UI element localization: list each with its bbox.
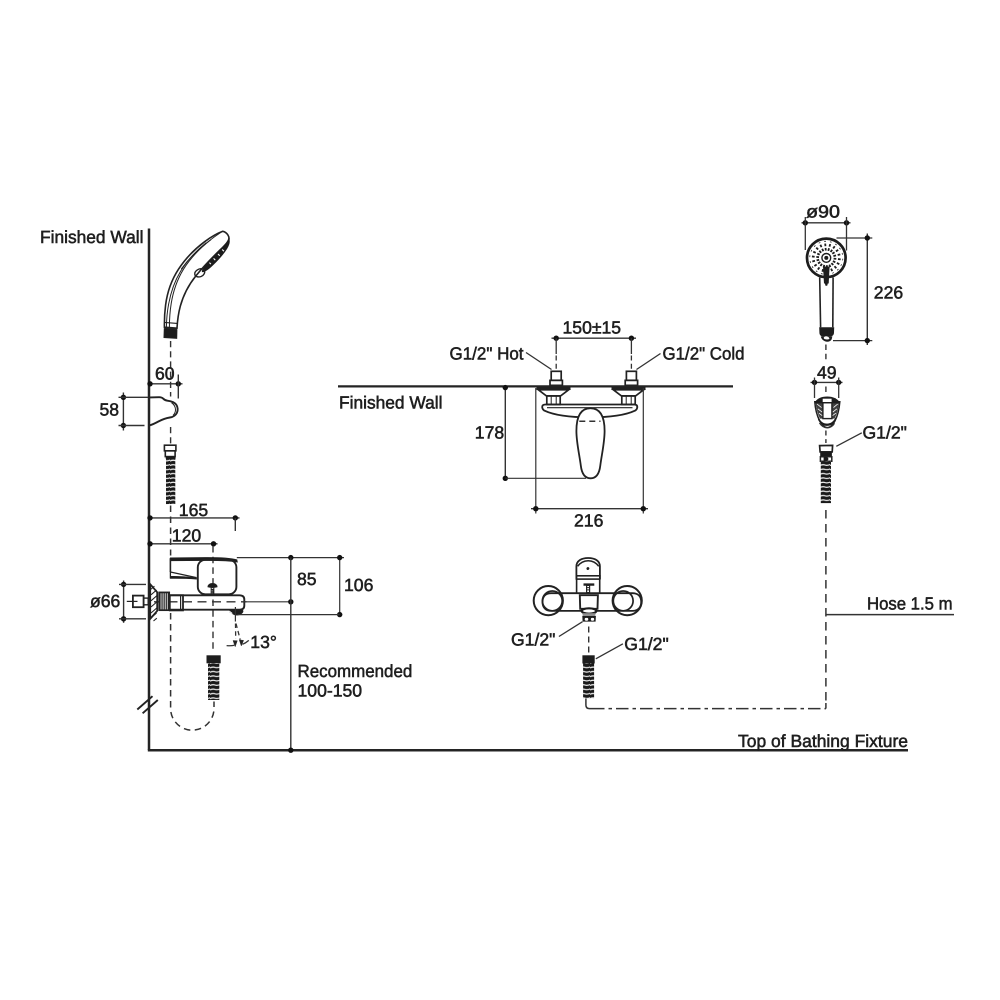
dimension 58 (bracket height) bbox=[100, 393, 149, 431]
mixer body (horizontal cylinder) bbox=[169, 595, 244, 609]
label Finished Wall (front view) bbox=[339, 393, 443, 413]
escutcheon hot (flange + nut) bbox=[537, 389, 571, 405]
cartridge screw (rear) bbox=[584, 584, 594, 593]
spout swing 13 degrees indicator bbox=[227, 607, 249, 647]
hand shower spray face (dark strip) bbox=[203, 240, 229, 271]
label Hose 1.5 m with reference line bbox=[826, 594, 954, 615]
outlet rings + castellated nut bbox=[582, 608, 597, 621]
lever underside wedge bbox=[170, 572, 196, 578]
wall supply bracket (cone cup) bbox=[815, 397, 841, 428]
svg-text:165: 165 bbox=[179, 500, 209, 520]
svg-text:G1/2": G1/2" bbox=[863, 423, 907, 443]
svg-text:ø90: ø90 bbox=[806, 201, 840, 221]
wall flange right (rear view) bbox=[613, 586, 642, 615]
svg-text:Recommended: Recommended bbox=[298, 661, 413, 681]
svg-text:G1/2" Hot: G1/2" Hot bbox=[450, 344, 524, 364]
hand shower hook hole bbox=[195, 269, 205, 277]
dark top rim cap bbox=[815, 397, 841, 404]
shower hose upper segment (coil) bbox=[166, 457, 176, 505]
supply valve cold (above wall) bbox=[625, 371, 637, 385]
hose nut (right) bbox=[820, 445, 833, 461]
outlet centerline (dashed) bbox=[588, 627, 590, 654]
dark side walls bbox=[816, 403, 823, 419]
bowl bottom arc bbox=[819, 423, 834, 428]
svg-text:Finished Wall: Finished Wall bbox=[40, 227, 144, 247]
dimension 106 (top of handle to spout bottom) bbox=[238, 555, 374, 617]
svg-text:58: 58 bbox=[100, 400, 120, 420]
supply valve hot (above wall) bbox=[550, 371, 562, 385]
svg-text:G1/2": G1/2" bbox=[511, 629, 555, 649]
label Top of Bathing Fixture bbox=[738, 731, 908, 751]
vertical reference line to bathing fixture bbox=[290, 558, 292, 750]
label G1/2" (hose nut) with leader bbox=[596, 634, 669, 659]
centerline through shower and holder (dashed) bbox=[170, 341, 172, 445]
spout tip (dark, angled down) bbox=[230, 610, 243, 615]
centerline below bracket (dashed) bbox=[825, 431, 827, 444]
wall break symbol bbox=[137, 696, 158, 713]
shower head face (circle with spray nozzles) bbox=[807, 239, 846, 286]
dimension 85 (top of handle to body axis) bbox=[237, 555, 344, 605]
handle collar and inlet tip (dark) bbox=[819, 327, 834, 341]
inner slot (white) bbox=[823, 403, 832, 419]
label G1/2" (hose to handshower) with leader bbox=[836, 423, 907, 447]
label G1/2" Hot with leader bbox=[450, 344, 552, 370]
bath mixer side view: body bbox=[169, 557, 244, 615]
svg-text:106: 106 bbox=[344, 575, 374, 595]
mixer handle (front, teardrop) bbox=[576, 408, 604, 478]
dimension 165 (wall to spout tip) bbox=[147, 500, 239, 531]
mixer body bar (front) bbox=[542, 405, 637, 418]
svg-text:G1/2": G1/2" bbox=[624, 634, 668, 654]
shower hose (right, coil) bbox=[821, 461, 831, 503]
shower holder bracket on wall bbox=[150, 397, 178, 425]
set screw on body bbox=[208, 583, 217, 587]
svg-text:85: 85 bbox=[297, 569, 317, 589]
wall flange left (rear view) bbox=[534, 586, 563, 615]
dimension 49 (bracket width) bbox=[811, 363, 843, 398]
svg-text:150±15: 150±15 bbox=[563, 318, 622, 338]
hand shower (hanging, side view) bbox=[164, 231, 229, 338]
dark lower band bbox=[818, 417, 836, 426]
hose connector below bracket bbox=[164, 445, 176, 456]
cartridge cap (rounded square) bbox=[198, 560, 237, 595]
svg-text:120: 120 bbox=[172, 525, 202, 545]
diverter block (rear center) bbox=[580, 595, 598, 609]
hose route (right, dashed vertical) bbox=[825, 510, 827, 702]
bottom line: top of bathing fixture bbox=[148, 748, 908, 753]
diverter outlet hose nut (dark) bbox=[207, 655, 221, 663]
escutcheon cold (flange + nut) bbox=[612, 389, 646, 405]
hose loop (dashed U path) bbox=[171, 506, 214, 731]
dimension ø90 (head diameter) bbox=[802, 201, 851, 250]
wall line (front view) bbox=[338, 385, 733, 387]
svg-text:Finished Wall: Finished Wall bbox=[339, 393, 443, 413]
svg-text:13°: 13° bbox=[250, 632, 277, 652]
head-to-handle dark taper bbox=[823, 267, 830, 284]
hose nut (rear, dark) bbox=[582, 655, 594, 663]
hose route to tub rim (dash-dot) bbox=[586, 699, 826, 709]
label Recommended 100-150 bbox=[298, 661, 413, 701]
centerline through bracket (dashed) bbox=[825, 387, 828, 419]
label 13 degrees bbox=[250, 632, 277, 652]
mixer lever (side, dark top bar) bbox=[170, 557, 237, 562]
label Finished Wall (left) bbox=[40, 227, 144, 247]
dimension 150±15 (supply spacing) bbox=[552, 318, 637, 370]
dimension 120 (wall to spout axis) bbox=[147, 525, 217, 546]
dimension 60 (wall to shower axis) bbox=[147, 363, 182, 398]
hose segment below nut (coil) bbox=[583, 664, 594, 699]
body centerline (dashed horizontal) bbox=[154, 601, 247, 603]
label G1/2" (diverter outlet) with leader bbox=[511, 622, 583, 650]
svg-text:49: 49 bbox=[817, 363, 837, 383]
svg-text:ø66: ø66 bbox=[90, 591, 121, 611]
wall union: escutcheon cone bbox=[150, 584, 157, 621]
wall union: connector nut bbox=[170, 595, 183, 610]
mixer handle (rear view) bbox=[576, 558, 600, 593]
spout centerline (dashed vertical) bbox=[212, 546, 214, 651]
label G1/2" Cold with leader bbox=[637, 344, 745, 370]
wall union: knurled nut bbox=[159, 592, 169, 610]
svg-text:60: 60 bbox=[155, 363, 175, 383]
wall line (left view vertical finished wall) bbox=[148, 229, 151, 751]
hand shower outlet tip bbox=[164, 322, 177, 329]
svg-text:G1/2" Cold: G1/2" Cold bbox=[663, 344, 745, 364]
dimension 216 (overall width) bbox=[531, 388, 648, 530]
dimension 178 (wall to handle tip) bbox=[475, 385, 586, 481]
svg-text:Top of Bathing Fixture: Top of Bathing Fixture bbox=[738, 731, 908, 751]
dimension 226 (head length) bbox=[833, 234, 903, 346]
svg-text:100-150: 100-150 bbox=[298, 680, 363, 700]
svg-text:216: 216 bbox=[574, 510, 604, 530]
svg-text:Hose 1.5 m: Hose 1.5 m bbox=[867, 594, 953, 614]
outer bowl silhouette bbox=[815, 402, 840, 428]
centerline below handle (dashed) bbox=[825, 345, 827, 360]
dimension ø66 (escutcheon diameter) bbox=[90, 581, 146, 623]
svg-text:226: 226 bbox=[874, 283, 904, 303]
supply stub in wall (left of wall) bbox=[127, 596, 148, 608]
svg-text:178: 178 bbox=[475, 422, 505, 442]
shower handle (front) bbox=[820, 278, 833, 328]
diverter outlet hose segment (coil) bbox=[208, 663, 219, 700]
mixer body bar (rear) bbox=[543, 593, 642, 611]
